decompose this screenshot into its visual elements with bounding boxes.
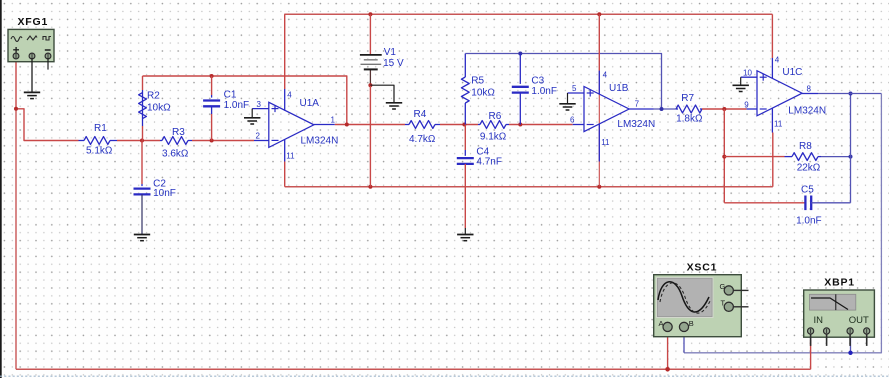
svg-text:V1: V1 — [384, 47, 397, 58]
svg-text:3: 3 — [257, 100, 262, 109]
svg-text:1.0nF: 1.0nF — [531, 86, 557, 97]
svg-text:10kΩ: 10kΩ — [471, 88, 495, 99]
svg-text:4: 4 — [287, 91, 292, 100]
svg-text:3.6kΩ: 3.6kΩ — [162, 149, 189, 160]
svg-text:5: 5 — [572, 84, 577, 93]
svg-text:1.0nF: 1.0nF — [796, 216, 822, 227]
svg-text:8: 8 — [807, 85, 812, 94]
svg-text:1.0nF: 1.0nF — [224, 100, 250, 111]
svg-text:1: 1 — [331, 116, 336, 125]
svg-text:G: G — [720, 282, 726, 291]
svg-text:R5: R5 — [471, 76, 484, 87]
svg-text:OUT: OUT — [849, 315, 869, 326]
svg-text:U1C: U1C — [782, 67, 802, 78]
svg-text:XFG1: XFG1 — [18, 16, 49, 28]
svg-text:22kΩ: 22kΩ — [797, 163, 821, 174]
svg-text:2: 2 — [256, 132, 261, 141]
svg-text:R7: R7 — [681, 93, 694, 104]
svg-text:4: 4 — [603, 71, 608, 80]
svg-text:C5: C5 — [801, 185, 814, 196]
svg-text:4: 4 — [775, 56, 780, 65]
svg-text:7: 7 — [635, 100, 640, 109]
svg-text:B: B — [689, 319, 694, 328]
svg-text:6: 6 — [570, 116, 575, 125]
svg-text:R4: R4 — [414, 109, 427, 120]
svg-text:10nF: 10nF — [153, 188, 176, 199]
svg-text:9.1kΩ: 9.1kΩ — [480, 132, 507, 143]
svg-text:R8: R8 — [799, 141, 812, 152]
svg-text:A: A — [659, 319, 664, 328]
svg-text:R6: R6 — [489, 111, 502, 122]
svg-text:15 V: 15 V — [383, 58, 404, 69]
svg-text:1.8kΩ: 1.8kΩ — [676, 114, 703, 125]
svg-text:4.7kΩ: 4.7kΩ — [409, 134, 436, 145]
svg-text:LM324N: LM324N — [788, 106, 826, 117]
svg-text:R2: R2 — [147, 91, 160, 102]
svg-text:10kΩ: 10kΩ — [147, 103, 171, 114]
svg-text:C3: C3 — [531, 76, 544, 87]
svg-text:11: 11 — [774, 120, 783, 129]
svg-text:U1A: U1A — [300, 98, 320, 109]
svg-text:R3: R3 — [172, 127, 185, 138]
svg-text:LM324N: LM324N — [617, 119, 655, 130]
svg-text:4.7nF: 4.7nF — [476, 157, 502, 168]
svg-text:11: 11 — [286, 152, 295, 161]
svg-text:T: T — [721, 299, 726, 308]
svg-text:10: 10 — [743, 69, 752, 78]
svg-text:11: 11 — [601, 138, 610, 147]
svg-text:R1: R1 — [94, 123, 107, 134]
svg-text:XSC1: XSC1 — [687, 262, 718, 274]
svg-text:9: 9 — [744, 101, 749, 110]
svg-text:5.1kΩ: 5.1kΩ — [86, 146, 113, 157]
svg-text:XBP1: XBP1 — [824, 277, 855, 289]
svg-text:IN: IN — [814, 315, 824, 326]
svg-text:U1B: U1B — [609, 83, 629, 94]
svg-text:LM324N: LM324N — [301, 136, 339, 147]
